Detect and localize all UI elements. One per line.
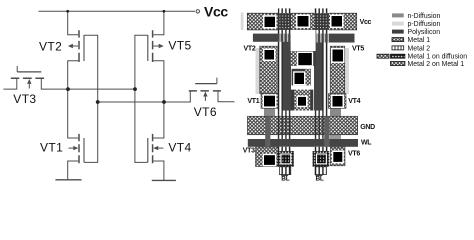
svg-text:Vcc: Vcc — [360, 19, 372, 26]
svg-text:VT5: VT5 — [168, 39, 191, 53]
svg-text:VT2: VT2 — [244, 46, 256, 53]
svg-text:VT4: VT4 — [348, 98, 360, 105]
svg-text:Vcc: Vcc — [204, 4, 228, 20]
svg-text:Metal 1 on diffusion: Metal 1 on diffusion — [408, 54, 468, 61]
svg-text:Metal 2 on Metal 1: Metal 2 on Metal 1 — [408, 61, 465, 68]
svg-text:VT2: VT2 — [39, 40, 62, 54]
svg-text:VT4: VT4 — [168, 141, 191, 155]
svg-text:VT6: VT6 — [348, 150, 360, 157]
svg-text:Metal 2: Metal 2 — [408, 45, 431, 52]
svg-text:BL: BL — [281, 176, 289, 183]
svg-text:VT1: VT1 — [247, 98, 259, 105]
svg-text:n-Diffusion: n-Diffusion — [408, 13, 441, 20]
svg-text:VT3: VT3 — [243, 148, 255, 155]
svg-text:VT6: VT6 — [194, 105, 217, 119]
svg-text:BL: BL — [316, 176, 324, 183]
svg-text:Metal 1: Metal 1 — [408, 37, 431, 44]
svg-text:WL: WL — [361, 140, 372, 147]
svg-text:VT5: VT5 — [352, 46, 364, 53]
svg-text:GND: GND — [360, 124, 375, 131]
svg-text:VT3: VT3 — [13, 92, 36, 106]
svg-text:VT1: VT1 — [40, 141, 63, 155]
svg-text:p-Diffusion: p-Diffusion — [408, 21, 441, 28]
svg-text:Polysilicon: Polysilicon — [408, 29, 441, 36]
